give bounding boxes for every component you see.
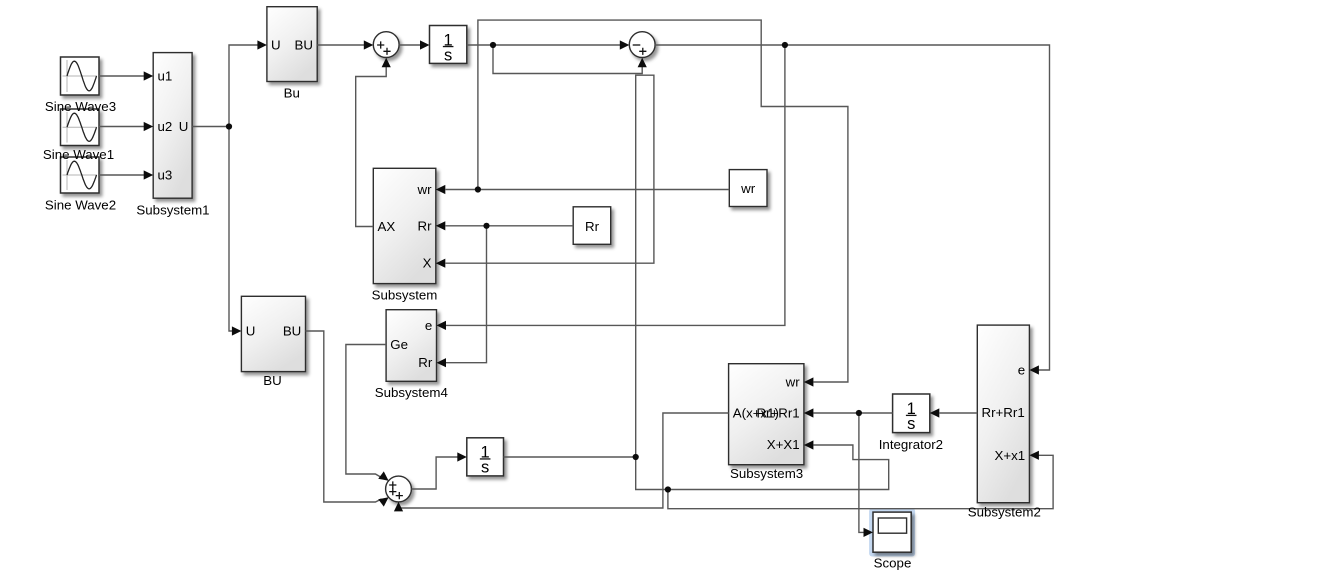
- svg-text:Sine Wave1: Sine Wave1: [43, 147, 114, 162]
- svg-text:wr: wr: [740, 181, 756, 196]
- arrow into S2 bottom input: [638, 58, 647, 67]
- svg-text:BU: BU: [283, 324, 301, 339]
- svg-text:u2: u2: [158, 119, 173, 134]
- junction Rr net: [483, 223, 489, 229]
- arrow into Subsystem2 X+x1 input: [1029, 451, 1039, 460]
- minus sign S2 left input: [633, 44, 641, 46]
- svg-text:Scope: Scope: [874, 556, 912, 570]
- svg-text:e: e: [1018, 363, 1025, 378]
- arrow into S1 left input: [364, 40, 374, 49]
- svg-text:X: X: [423, 256, 432, 271]
- svg-text:AX: AX: [378, 219, 396, 234]
- wire Integrator2 output to Subsystem3 Rr+Rr1 input: [814, 412, 893, 414]
- arrow into bottom integrator: [457, 452, 467, 461]
- wire Integrator1 output to sum S2: [467, 44, 621, 46]
- arrow into Subsystem4 Rr input: [437, 358, 447, 367]
- svg-text:wr: wr: [785, 375, 801, 390]
- svg-text:Rr+Rr1: Rr+Rr1: [756, 406, 799, 421]
- wire X net branch to Subsystem3 X+X1 input: [636, 445, 889, 490]
- svg-text:Subsystem4: Subsystem4: [375, 385, 448, 400]
- svg-text:BU: BU: [263, 373, 281, 388]
- integrator block Integrator1: [430, 26, 467, 65]
- arrow into Scope: [864, 528, 874, 537]
- svg-text:Rr: Rr: [417, 218, 432, 233]
- arrow into S3 upper-left input: [378, 471, 391, 484]
- wire Sine Wave3 to u1: [99, 75, 145, 77]
- source block Sine Wave1: [61, 109, 100, 146]
- svg-text:s: s: [907, 415, 915, 433]
- arrow into S1 bottom input: [382, 58, 391, 67]
- arrow into Subsystem4 e input: [437, 321, 447, 330]
- subsystem block Bu: [267, 7, 317, 82]
- plus sign S3 left input: [389, 488, 396, 495]
- junction Integrator1 output: [490, 42, 496, 48]
- arrow into u1: [144, 71, 154, 80]
- svg-text:Integrator2: Integrator2: [879, 437, 943, 452]
- wire Integrator1 branch to S2 bottom input: [493, 45, 642, 74]
- svg-text:Subsystem: Subsystem: [372, 288, 438, 303]
- wire U output from Subsystem1: [192, 126, 229, 128]
- svg-text:X+X1: X+X1: [767, 437, 800, 452]
- wire Sine Wave1 to u2: [99, 126, 145, 128]
- block wr: [729, 170, 767, 207]
- svg-text:s: s: [481, 459, 489, 477]
- svg-text:U: U: [179, 119, 189, 134]
- junction U net: [226, 123, 232, 129]
- subsystem block Subsystem1: [153, 53, 192, 199]
- wire e net from S2 output to Subsystem2 e input: [655, 45, 1049, 370]
- wire Subsystem3 output to S3 bottom input: [399, 413, 729, 508]
- integrator block Integrator2: [893, 394, 930, 433]
- arrow into Subsystem X input: [436, 259, 446, 268]
- sum block S1: [373, 32, 399, 58]
- source block Sine Wave2: [61, 157, 100, 193]
- wire wr net branch to Subsystem3 wr input: [478, 20, 848, 382]
- svg-text:Rr: Rr: [418, 355, 433, 370]
- svg-text:u1: u1: [158, 69, 173, 84]
- subsystem block Subsystem2: [977, 325, 1029, 503]
- svg-text:U: U: [271, 38, 281, 53]
- svg-text:Subsystem1: Subsystem1: [136, 203, 209, 218]
- wire U net branch up to Bu: [229, 45, 258, 127]
- subsystem block BU: [241, 296, 305, 371]
- wire bottom integrator output: [504, 456, 636, 458]
- junction X net: [665, 486, 671, 492]
- wire Subsystem2 Rr+Rr1 output to Integrator2 input: [940, 412, 978, 414]
- arrow into Subsystem Rr input: [436, 221, 446, 230]
- wire e net branch down to Subsystem4 e input: [446, 45, 785, 325]
- svg-text:wr: wr: [416, 182, 432, 197]
- wire Rr net branch to Subsystem4 Rr input: [446, 226, 487, 363]
- arrow into Subsystem3 Rr+Rr1 input: [804, 408, 814, 417]
- subsystem block Subsystem4: [386, 310, 436, 382]
- svg-text:Ge: Ge: [390, 337, 408, 352]
- wire X net branch up to Subsystem X input: [446, 75, 654, 457]
- arrow into Integrator2 input: [930, 408, 940, 417]
- wire Sine Wave2 to u3: [99, 174, 145, 176]
- subsystem block Subsystem3: [729, 364, 804, 465]
- arrow into u3: [144, 170, 154, 179]
- junction Integrator2 output: [856, 410, 862, 416]
- scope selection halo: [869, 508, 915, 556]
- subsystem block Subsystem: [373, 168, 436, 283]
- arrow into Subsystem3 X+X1 input: [804, 440, 814, 449]
- arrow into Integrator1: [420, 40, 430, 49]
- arrow into Subsystem3 wr input: [804, 377, 814, 386]
- wire BU output to S3 left input: [306, 331, 382, 502]
- svg-text:s: s: [444, 46, 452, 64]
- wire Rr block output to Subsystem Rr input: [446, 225, 574, 227]
- wire U net branch down to BU: [229, 127, 233, 332]
- svg-text:Sine Wave2: Sine Wave2: [45, 198, 116, 213]
- plus sign S3 upper-left input: [389, 481, 396, 488]
- wire X net branch to Subsystem2 X+x1 input: [668, 455, 1053, 508]
- plus sign S1 left input: [377, 41, 384, 48]
- wire AX output of Subsystem to S1 bottom input: [356, 67, 387, 227]
- svg-text:Subsystem2: Subsystem2: [968, 505, 1041, 520]
- wire Ge output of Subsystem4 to S3 upper-left input: [346, 345, 386, 478]
- wire Bu output to sum S1: [317, 44, 364, 46]
- svg-text:X+x1: X+x1: [995, 448, 1026, 463]
- svg-text:Sine Wave3: Sine Wave3: [45, 99, 116, 114]
- arrow into u2: [144, 122, 154, 131]
- integrator block Integrator bottom: [467, 438, 504, 477]
- sum block S2: [629, 32, 655, 58]
- arrow into S2 left input: [620, 40, 630, 49]
- arrow into Subsystem2 e input: [1029, 365, 1039, 374]
- junction bottom integrator output: [633, 454, 639, 460]
- arrow into S3 bottom input: [394, 502, 403, 512]
- wire Integrator2 output branch to Scope: [859, 413, 865, 532]
- scope block Scope: [873, 512, 911, 552]
- arrow into BU U input: [232, 326, 242, 335]
- svg-text:u3: u3: [158, 168, 173, 183]
- arrow into Bu U input: [257, 40, 267, 49]
- junction wr net: [475, 186, 481, 192]
- wire wr block output to Subsystem wr input: [446, 189, 730, 191]
- junction e net: [782, 42, 788, 48]
- svg-text:Rr: Rr: [585, 219, 600, 234]
- plus sign S1 bottom input: [383, 48, 390, 55]
- svg-text:e: e: [425, 318, 432, 333]
- svg-text:Subsystem3: Subsystem3: [730, 466, 803, 481]
- plus sign S3 bottom input: [396, 492, 403, 499]
- svg-text:Bu: Bu: [284, 85, 300, 100]
- plus sign S2 bottom input: [639, 48, 646, 55]
- svg-text:U: U: [246, 324, 256, 339]
- wire S1 output to Integrator1: [399, 44, 421, 46]
- sum block S3: [386, 476, 412, 502]
- arrow into Subsystem wr input: [436, 185, 446, 194]
- wire S3 output to bottom integrator: [411, 457, 458, 489]
- source block Sine Wave3: [61, 57, 100, 95]
- arrow into S3 left input: [378, 494, 391, 507]
- svg-text:Rr+Rr1: Rr+Rr1: [982, 405, 1025, 420]
- svg-text:BU: BU: [295, 38, 313, 53]
- block Rr: [573, 207, 611, 245]
